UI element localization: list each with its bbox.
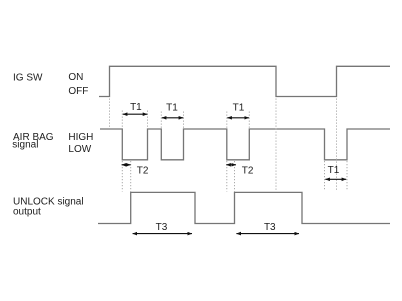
dotted line at UNLOCK rise1 x=130.7 [130, 161, 132, 192]
svg-text:T1: T1 [328, 165, 340, 176]
svg-text:output: output [13, 207, 41, 218]
svg-text:T3: T3 [264, 222, 276, 233]
dotted line at AB pulse4 rise x=347 [346, 161, 348, 190]
arrow T1 fourth [325, 178, 346, 180]
svg-text:OFF: OFF [68, 86, 88, 97]
dotted line at UNLOCK rise2 x=234.5 [234, 161, 236, 192]
dotted line at IG SW fall x=276 [275, 99, 277, 192]
wire IG SW waveform [99, 66, 390, 96]
dotted line at AB pulse1 fall upper x=122.3 [121, 111, 123, 129]
dotted line at AB pulse3 fall upper x=226.8 [226, 112, 228, 129]
arrow T1 second [162, 117, 183, 119]
arrow T2 first [122, 164, 131, 166]
svg-text:IG SW: IG SW [13, 73, 43, 84]
dotted line at AB pulse4 fall x=324.5 [324, 161, 326, 190]
svg-text:T2: T2 [242, 166, 254, 177]
wire UNLOCK signal waveform [98, 192, 390, 223]
dotted line at AB pulse3 rise x=249.3 [248, 112, 250, 129]
svg-text:T1: T1 [130, 102, 142, 113]
arrow T2 second [226, 164, 236, 166]
wire AIR BAG signal waveform [100, 129, 390, 160]
arrow T3 second [236, 233, 299, 235]
svg-text:LOW: LOW [68, 144, 91, 155]
svg-text:T2: T2 [137, 166, 149, 177]
dotted line at IG SW rise x=109.5 [109, 99, 111, 129]
arrow T1 third [227, 117, 249, 119]
svg-text:HIGH: HIGH [68, 132, 93, 143]
svg-text:T1: T1 [166, 103, 178, 114]
dotted line at AB pulse1 fall lower x=122.3 [121, 161, 123, 192]
svg-text:signal: signal [12, 140, 38, 151]
svg-text:ON: ON [68, 72, 83, 83]
svg-text:T1: T1 [233, 103, 245, 114]
dotted line at AB pulse2 fall x=161.3 [160, 112, 162, 129]
dotted line at AB pulse3 fall lower x=226.8 [226, 161, 228, 192]
dotted line at AB pulse2 rise x=183.5 [183, 112, 185, 129]
arrow T3 first [133, 233, 192, 235]
dotted line at IG SW rise2 x=336.5 [336, 99, 338, 191]
arrow T1 first [123, 113, 148, 115]
svg-text:T3: T3 [156, 222, 168, 233]
dotted line at AB pulse1 rise x=147.5 [147, 111, 149, 129]
